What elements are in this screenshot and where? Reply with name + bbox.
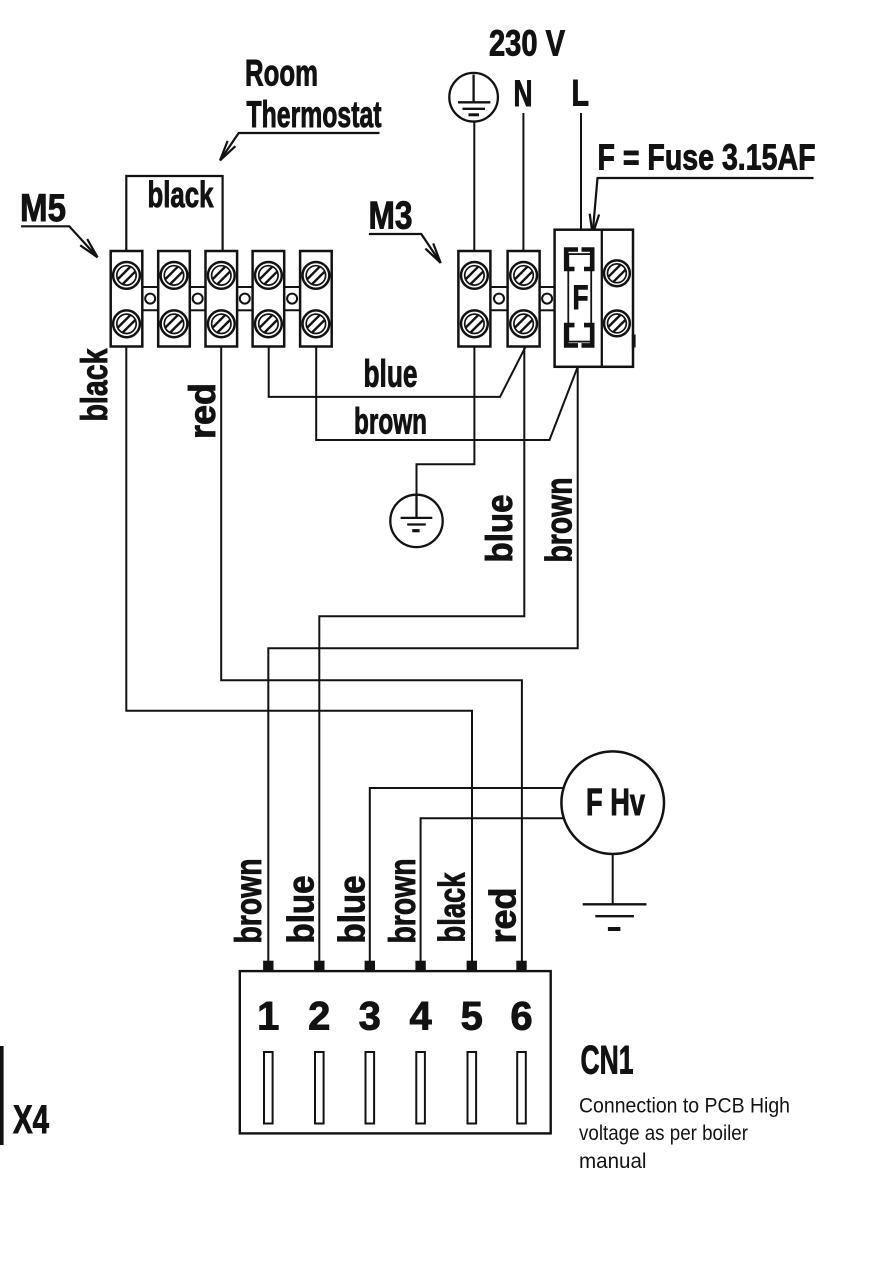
earth symbol (M3 PE)	[390, 495, 442, 547]
svg-text:manual: manual	[579, 1150, 647, 1173]
svg-text:Room: Room	[245, 52, 318, 93]
svg-text:blue: blue	[281, 876, 322, 944]
wire F Hv to ground	[612, 854, 614, 904]
CN1 pin 5 contact	[467, 961, 477, 971]
terminal link M5 2-3	[190, 287, 206, 310]
wire red M5-T3 to CN1 pin6	[221, 347, 522, 962]
svg-text:black: black	[74, 348, 115, 421]
svg-text:5: 5	[461, 995, 483, 1039]
svg-text:brown: brown	[382, 859, 423, 944]
svg-text:blue: blue	[364, 354, 418, 396]
CN1 slot 2	[315, 1052, 324, 1124]
connector edge mark X4	[0, 1046, 4, 1145]
connector CN1	[240, 961, 551, 1134]
CN1 slot 3	[366, 1052, 375, 1124]
fan F Hv	[561, 751, 664, 854]
wire blue M3-T2 to CN1 pin2	[319, 347, 524, 962]
room thermostat link box (black)	[126, 174, 222, 251]
svg-text:1: 1	[257, 995, 279, 1039]
svg-text:F = Fuse 3.15AF: F = Fuse 3.15AF	[598, 137, 816, 178]
CN1 pin 6 contact	[516, 961, 526, 971]
svg-text:brown: brown	[354, 401, 427, 442]
wire black M5-T1 to CN1 pin5	[126, 347, 472, 962]
note: connection to PCB	[579, 1094, 790, 1173]
terminal block M5	[111, 251, 332, 347]
terminal M5-2	[158, 251, 190, 347]
fuse holder F (fuse 3.15AF)	[555, 230, 636, 367]
terminal M5-4	[253, 251, 285, 347]
svg-text:N: N	[514, 73, 533, 114]
CN1 pin 4 contact	[415, 961, 425, 971]
svg-text:black: black	[148, 174, 215, 215]
svg-text:black: black	[432, 872, 473, 942]
label M3 with leader arrow	[369, 195, 441, 264]
svg-text:M5: M5	[20, 187, 66, 230]
svg-text:CN1: CN1	[581, 1039, 634, 1083]
svg-text:voltage as per boiler: voltage as per boiler	[579, 1122, 748, 1145]
terminal link M3 2-F	[540, 287, 555, 310]
terminal link M5 4-5	[284, 287, 300, 310]
svg-text:brown: brown	[228, 859, 269, 944]
CN1 slot 1	[264, 1052, 273, 1124]
svg-text:Connection to PCB High: Connection to PCB High	[579, 1094, 790, 1117]
svg-text:4: 4	[409, 995, 432, 1039]
terminal M5-3	[206, 251, 238, 347]
label F = Fuse 3.15AF with leader arrow	[590, 137, 816, 235]
label M5 with leader arrow	[20, 187, 98, 257]
svg-text:M3: M3	[369, 195, 413, 238]
svg-text:L: L	[572, 73, 590, 114]
terminal block M3	[458, 251, 554, 347]
wire brown M5-T5 to fuse	[316, 347, 577, 441]
terminal M5-5	[300, 251, 332, 347]
svg-text:F: F	[573, 279, 589, 317]
svg-text:230 V: 230 V	[489, 23, 565, 64]
wire blue M5-T4 to M3-T2	[269, 347, 526, 397]
wire brown CN1 pin4 to F Hv	[421, 818, 564, 961]
terminal link M3 1-2	[490, 287, 507, 310]
svg-text:2: 2	[308, 995, 330, 1039]
CN1 pin 3 contact	[365, 961, 375, 971]
svg-text:3: 3	[359, 995, 381, 1039]
label Room Thermostat with leader arrow	[220, 52, 382, 160]
CN1 slot 5	[468, 1052, 477, 1124]
CN1 pin 1 contact	[263, 961, 273, 971]
wire brown fuse to CN1 pin1	[268, 367, 577, 961]
svg-text:blue: blue	[332, 876, 373, 944]
svg-text:Thermostat: Thermostat	[247, 94, 382, 135]
svg-text:brown: brown	[539, 478, 580, 563]
wire PE drop to M3	[473, 122, 475, 251]
svg-text:blue: blue	[479, 495, 520, 563]
ground symbol	[583, 904, 647, 929]
wire blue CN1 pin3 to F Hv	[370, 788, 564, 961]
CN1 slot 6	[517, 1052, 526, 1124]
wire PE M3-T1 to earth symbol	[417, 347, 475, 496]
svg-text:red: red	[483, 888, 524, 944]
terminal M3-2	[508, 251, 540, 347]
svg-text:6: 6	[510, 995, 532, 1039]
earth symbol PE (mains)	[449, 73, 498, 122]
wire L drop to fuse	[580, 113, 582, 231]
svg-text:F Hv: F Hv	[586, 782, 645, 824]
terminal M3-1	[458, 251, 490, 347]
CN1 slot 4	[416, 1052, 425, 1124]
terminal link M5 1-2	[142, 287, 158, 310]
terminal link M5 3-4	[237, 287, 253, 310]
CN1 pin 2 contact	[314, 961, 324, 971]
wire N drop to M3	[522, 113, 524, 251]
svg-text:X4: X4	[13, 1098, 50, 1142]
terminal M5-1	[111, 251, 143, 347]
svg-text:red: red	[182, 383, 223, 439]
